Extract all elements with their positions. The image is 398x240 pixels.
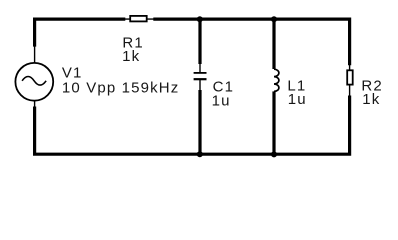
- svg-text:1u: 1u: [288, 91, 307, 108]
- svg-text:1k: 1k: [122, 48, 140, 65]
- svg-text:1u: 1u: [212, 92, 231, 109]
- svg-text:1k: 1k: [362, 91, 380, 108]
- svg-text:10 Vpp 159kHz: 10 Vpp 159kHz: [62, 79, 180, 96]
